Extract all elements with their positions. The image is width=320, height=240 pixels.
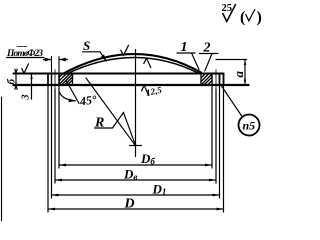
svg-text:D: D (124, 197, 135, 212)
svg-text:45°: 45° (78, 92, 98, 108)
svg-text:2: 2 (203, 41, 211, 56)
svg-text:25: 25 (222, 3, 233, 14)
svg-text:б: б (6, 79, 18, 85)
svg-text:(: ( (240, 9, 245, 26)
svg-text:п5: п5 (243, 119, 256, 133)
svg-text:1: 1 (181, 40, 188, 55)
svg-text:R: R (94, 116, 104, 131)
svg-text:ПотвФ23: ПотвФ23 (6, 49, 43, 59)
svg-text:3: 3 (21, 95, 32, 101)
svg-text:S: S (83, 38, 90, 53)
svg-text:): ) (257, 9, 262, 26)
svg-text:а: а (231, 71, 246, 78)
